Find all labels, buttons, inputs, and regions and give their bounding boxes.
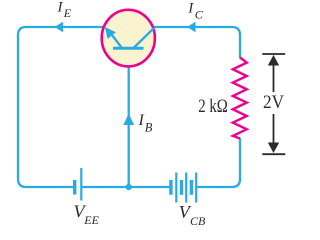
- transistor base bar: [113, 47, 144, 50]
- svg-text:CB: CB: [190, 214, 206, 228]
- junction node: [126, 184, 132, 190]
- 2V measure arrow bottom bar: [262, 153, 285, 155]
- battery VEE cell: [75, 168, 82, 201]
- emitter arrowhead: [105, 27, 116, 39]
- wire left loop (emitter side): [18, 27, 104, 187]
- svg-text:B: B: [145, 120, 153, 134]
- 2V measure arrow line upper: [273, 63, 275, 92]
- wire top right collector to resistor top: [152, 27, 240, 58]
- svg-text:2V: 2V: [263, 92, 284, 113]
- IC current arrow: [187, 22, 196, 33]
- 2V measure arrow top bar: [262, 53, 285, 55]
- svg-text:I: I: [187, 1, 194, 17]
- 2V measure arrow down head: [268, 143, 279, 154]
- resistor R1 2k zigzag: [233, 58, 247, 139]
- IE current arrow: [55, 22, 64, 33]
- svg-text:C: C: [195, 8, 204, 22]
- wire VCB to right corner up to resistor bottom: [197, 138, 240, 187]
- svg-text:I: I: [138, 112, 145, 129]
- 2V measure arrow line lower: [273, 114, 275, 145]
- transistor collector lead: [134, 28, 155, 48]
- IB current arrow: [123, 114, 134, 126]
- transistor Q1 circle: [102, 10, 155, 67]
- wire VEE to junction to VCB: [82, 186, 170, 188]
- svg-text:E: E: [63, 6, 72, 20]
- svg-text:EE: EE: [83, 213, 99, 227]
- battery VCB cells: [171, 173, 196, 203]
- wire base lead vertical: [128, 50, 130, 187]
- svg-text:2 kΩ: 2 kΩ: [198, 96, 228, 117]
- 2V measure arrow up head: [268, 55, 279, 66]
- svg-text:I: I: [57, 0, 64, 16]
- transistor emitter lead with arrow: [112, 35, 122, 48]
